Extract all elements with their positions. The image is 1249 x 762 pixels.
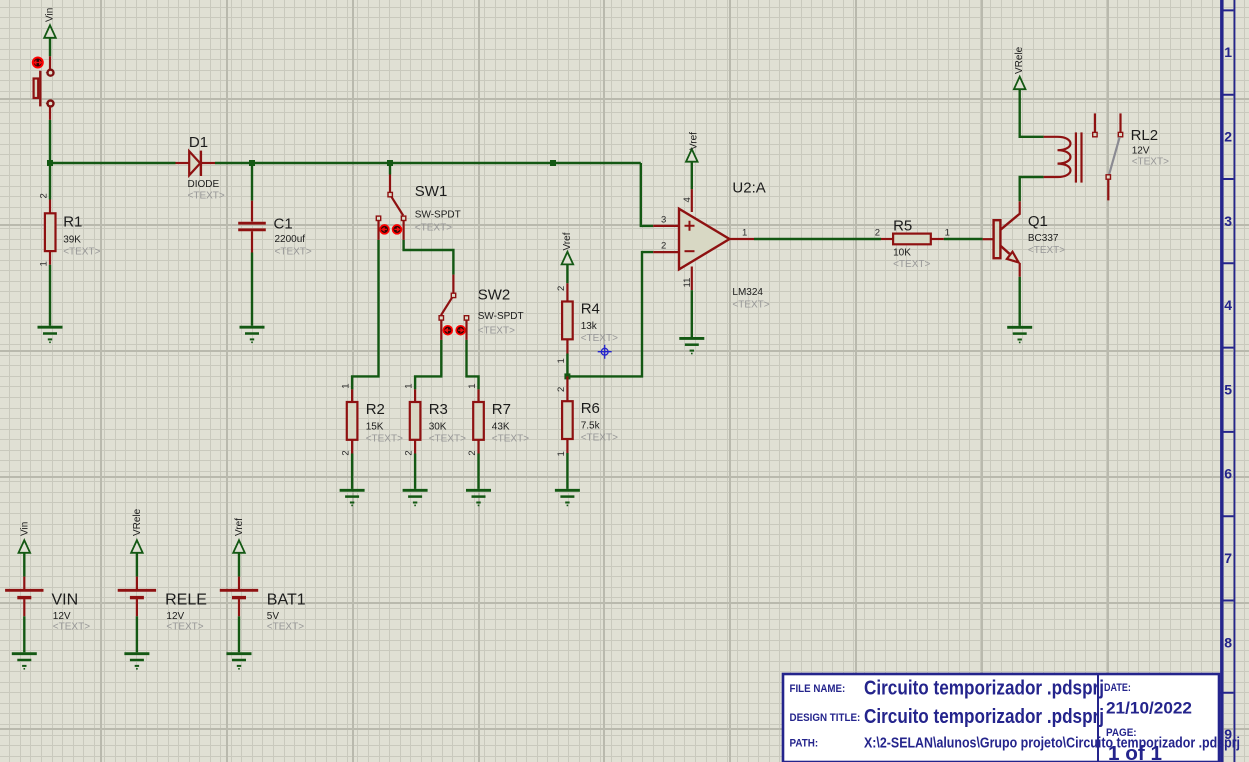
- svg-text:4: 4: [1224, 297, 1232, 313]
- svg-text:DESIGN TITLE:: DESIGN TITLE:: [790, 712, 861, 724]
- svg-text:R7: R7: [492, 401, 511, 418]
- svg-text:R1: R1: [63, 213, 82, 230]
- svg-text:5V: 5V: [267, 611, 280, 622]
- pin C1 top: [251, 201, 253, 222]
- wire R2 to ground: [351, 454, 353, 489]
- relay contact right stub: [1118, 113, 1122, 136]
- svg-text:D1: D1: [189, 134, 208, 151]
- pin 1 R6: [566, 439, 568, 453]
- svg-text:RL2: RL2: [1131, 127, 1159, 144]
- ground R2: [340, 490, 365, 505]
- svg-text:PATH:: PATH:: [790, 738, 819, 750]
- power terminal Vref above R4: [562, 232, 574, 264]
- svg-text:43K: 43K: [492, 422, 510, 433]
- svg-text:3: 3: [1224, 213, 1232, 229]
- svg-text:PAGE:: PAGE:: [1106, 727, 1137, 739]
- wire R1 top: [49, 163, 51, 200]
- svg-text:R6: R6: [581, 400, 600, 417]
- switch SW2: [439, 287, 524, 337]
- pin C1 bottom: [251, 231, 253, 252]
- svg-text:<TEXT>: <TEXT>: [732, 300, 769, 311]
- ground R3: [403, 490, 428, 505]
- svg-text:<TEXT>: <TEXT>: [267, 621, 304, 632]
- wire R1 to ground: [49, 265, 51, 326]
- svg-text:6: 6: [1224, 466, 1232, 482]
- svg-text:1 of 1: 1 of 1: [1108, 743, 1162, 762]
- svg-text:1: 1: [467, 384, 478, 389]
- ground R7: [466, 490, 491, 505]
- pin 3 op-amp: [653, 225, 679, 227]
- resistor R4: [562, 301, 618, 345]
- svg-text:2: 2: [661, 241, 666, 252]
- svg-text:VIN: VIN: [52, 591, 79, 608]
- SW1 toggle marker left: [380, 225, 389, 234]
- svg-text:R3: R3: [429, 401, 448, 418]
- svg-text:4: 4: [682, 197, 693, 202]
- wire R4 to junction: [566, 354, 568, 377]
- pin 4 op-amp: [691, 189, 693, 212]
- svg-text:2: 2: [556, 387, 567, 392]
- svg-text:1: 1: [556, 451, 567, 456]
- svg-text:1: 1: [945, 228, 950, 239]
- wire pin11 to ground: [691, 290, 693, 337]
- svg-text:1: 1: [742, 227, 747, 238]
- svg-text:<TEXT>: <TEXT>: [1028, 245, 1065, 256]
- battery RELE: [118, 508, 207, 652]
- svg-text:<TEXT>: <TEXT>: [429, 434, 466, 445]
- pin SW2 left throw: [440, 320, 442, 340]
- svg-text:VRele: VRele: [132, 508, 143, 536]
- svg-text:12V: 12V: [1132, 146, 1150, 157]
- battery BAT1: [220, 518, 306, 652]
- pin 2 R6: [566, 376, 568, 401]
- pin 1 R3: [414, 389, 416, 402]
- svg-text:<TEXT>: <TEXT>: [415, 223, 452, 234]
- node junction at R1 tap: [47, 160, 53, 166]
- transistor Q1: [994, 213, 1066, 262]
- wire C1 top: [251, 163, 253, 201]
- pin 2 R3: [414, 440, 416, 454]
- svg-text:11: 11: [682, 278, 693, 288]
- svg-text:DATE:: DATE:: [1104, 682, 1131, 694]
- ground R6: [555, 490, 580, 505]
- pin SW1 right throw: [403, 221, 405, 240]
- svg-text:2200uf: 2200uf: [275, 234, 306, 245]
- pin 2 R5: [881, 238, 893, 240]
- pin Q1 base: [983, 238, 994, 240]
- node junction at SW1 tap: [387, 160, 393, 166]
- pin 2 R1: [49, 200, 51, 214]
- pin SW1 left throw: [377, 221, 379, 240]
- battery VIN: [5, 522, 90, 653]
- wire VRele to relay coil: [1020, 89, 1044, 137]
- svg-text:R5: R5: [893, 217, 912, 234]
- resistor R6: [562, 400, 618, 444]
- svg-text:1: 1: [404, 384, 415, 389]
- svg-text:Circuito temporizador .pdsprj: Circuito temporizador .pdsprj: [864, 678, 1104, 700]
- svg-text:C1: C1: [274, 216, 293, 233]
- pin D1 cathode: [202, 162, 215, 164]
- SW1 toggle marker right: [393, 225, 402, 234]
- relay lever: [1109, 137, 1120, 175]
- svg-text:5: 5: [1224, 381, 1232, 397]
- pin 11 op-amp: [691, 267, 693, 291]
- svg-text:<TEXT>: <TEXT>: [275, 246, 312, 257]
- ground RELE: [124, 654, 149, 669]
- svg-text:2: 2: [341, 450, 352, 455]
- relay pole square: [1106, 175, 1110, 179]
- pin 1 R7: [477, 389, 479, 402]
- svg-text:21/10/2022: 21/10/2022: [1106, 699, 1192, 718]
- svg-text:Vin: Vin: [45, 8, 56, 22]
- power terminal Vin top-left: [44, 8, 56, 38]
- svg-text:1: 1: [39, 261, 50, 266]
- svg-text:Circuito temporizador .pdsprj: Circuito temporizador .pdsprj: [864, 706, 1104, 728]
- wire emitter to ground: [1019, 277, 1021, 326]
- svg-text:12V: 12V: [166, 611, 184, 622]
- SW2 toggle marker left: [443, 326, 452, 335]
- wire R3 to ground: [414, 454, 416, 489]
- wire SW2 right throw to R7: [467, 340, 479, 390]
- ground VIN: [12, 654, 37, 669]
- wire Vref to R4: [566, 264, 568, 283]
- svg-text:VRele: VRele: [1014, 46, 1025, 74]
- svg-text:2: 2: [404, 450, 415, 455]
- capacitor C1: [238, 216, 312, 258]
- wire SW2 left throw to R3: [415, 340, 441, 390]
- wire output to R5: [754, 238, 881, 240]
- ground C1: [240, 327, 265, 342]
- resistor R3: [410, 401, 466, 445]
- svg-text:7.5k: 7.5k: [581, 421, 601, 432]
- pin button bottom: [49, 106, 51, 120]
- pin Q1 collector: [1019, 201, 1021, 215]
- svg-text:Vref: Vref: [688, 132, 699, 150]
- pin Q1 emitter: [1019, 263, 1021, 277]
- resistor R2: [347, 401, 403, 445]
- wire Vin terminal to button: [49, 38, 51, 57]
- pin 1 R5: [931, 238, 944, 240]
- wire main to op-amp pin3: [641, 163, 653, 226]
- resistor R5: [893, 217, 931, 270]
- svg-text:Vin: Vin: [19, 522, 30, 536]
- svg-text:<TEXT>: <TEXT>: [53, 621, 90, 632]
- pin 2 R4: [566, 283, 568, 301]
- svg-text:DIODE: DIODE: [188, 179, 220, 190]
- svg-text:Vref: Vref: [562, 232, 573, 250]
- svg-text:1: 1: [341, 384, 352, 389]
- pin button top: [49, 56, 51, 69]
- SW2 toggle marker right: [456, 326, 465, 335]
- svg-text:<TEXT>: <TEXT>: [893, 259, 930, 270]
- svg-text:3: 3: [661, 214, 666, 225]
- svg-text:15K: 15K: [366, 422, 384, 433]
- wire SW1 left throw to R2: [352, 240, 378, 390]
- node junction at C1 tap: [249, 160, 255, 166]
- pushbutton SW top-left: [34, 70, 54, 107]
- title block: [783, 674, 1240, 762]
- svg-text:<TEXT>: <TEXT>: [166, 621, 203, 632]
- svg-text:LM324: LM324: [732, 287, 763, 298]
- resistor R1: [45, 213, 101, 257]
- ground BAT1: [227, 654, 252, 669]
- svg-text:<TEXT>: <TEXT>: [366, 434, 403, 445]
- op-amp U2:A: [679, 180, 770, 311]
- svg-text:2: 2: [556, 286, 567, 291]
- pin SW2 right throw: [465, 320, 467, 340]
- pin 2 R2: [351, 440, 353, 454]
- pin 1 R1: [49, 251, 51, 265]
- svg-text:Vref: Vref: [234, 518, 245, 536]
- svg-text:BC337: BC337: [1028, 233, 1059, 244]
- svg-text:39K: 39K: [63, 234, 81, 245]
- svg-text:SW2: SW2: [478, 287, 511, 304]
- svg-text:Q1: Q1: [1028, 213, 1048, 230]
- svg-text:10K: 10K: [893, 247, 911, 258]
- svg-text:RELE: RELE: [165, 591, 207, 608]
- pin 1 R4: [566, 339, 568, 353]
- svg-text:SW-SPDT: SW-SPDT: [478, 311, 524, 322]
- svg-text:R4: R4: [581, 301, 600, 318]
- svg-text:FILE NAME:: FILE NAME:: [790, 683, 846, 695]
- sheet border right: [1219, 0, 1235, 762]
- wire R7 to ground: [477, 454, 479, 489]
- ground R1: [38, 327, 63, 342]
- wire main horizontal to op-amp bend: [215, 162, 641, 164]
- origin marker: [598, 345, 612, 359]
- svg-text:SW-SPDT: SW-SPDT: [415, 210, 461, 221]
- svg-text:2: 2: [875, 228, 880, 239]
- node junction dangling: [550, 160, 556, 166]
- wire R6 to ground: [566, 453, 568, 489]
- svg-text:R2: R2: [366, 401, 385, 418]
- svg-text:8: 8: [1224, 634, 1232, 650]
- svg-text:12V: 12V: [53, 611, 71, 622]
- ground Q1: [1007, 327, 1032, 342]
- wire main horizontal left segment: [50, 162, 176, 164]
- wire C1 to ground: [251, 253, 253, 326]
- svg-text:7: 7: [1224, 550, 1232, 566]
- ground op-amp: [679, 338, 704, 353]
- power terminal VRele: [1014, 46, 1026, 89]
- svg-text:1: 1: [1224, 44, 1232, 60]
- pin D1 anode: [176, 162, 190, 164]
- svg-text:1: 1: [556, 358, 567, 363]
- wire R5 to Q1 base: [944, 238, 983, 240]
- relay RL2 coil: [1044, 127, 1169, 183]
- pin SW2 common: [452, 275, 454, 293]
- wire junction to op-amp pin2: [567, 252, 653, 376]
- svg-text:2: 2: [39, 193, 50, 198]
- svg-text:13k: 13k: [581, 321, 598, 332]
- wire Vref terminal to pin4: [691, 162, 693, 189]
- svg-text:2: 2: [1224, 129, 1232, 145]
- wire button to main node: [49, 120, 51, 163]
- svg-text:2: 2: [467, 450, 478, 455]
- pin 2 R7: [477, 440, 479, 454]
- svg-text:<TEXT>: <TEXT>: [492, 434, 529, 445]
- pin 2 op-amp: [653, 251, 679, 253]
- svg-text:<TEXT>: <TEXT>: [478, 326, 515, 337]
- wire SW1 right throw to SW2 common: [404, 240, 454, 275]
- svg-text:30K: 30K: [429, 422, 447, 433]
- relay contact left stub: [1093, 113, 1097, 136]
- pin SW1 common: [389, 175, 391, 193]
- svg-text:<TEXT>: <TEXT>: [581, 433, 618, 444]
- resistor R7: [473, 401, 529, 445]
- svg-text:U2:A: U2:A: [732, 180, 765, 197]
- switch SW1: [376, 183, 460, 234]
- red actuator marker: [33, 58, 43, 68]
- diode D1: [188, 134, 225, 202]
- wire relay coil bottom to collector: [1020, 177, 1044, 201]
- pin 1 op-amp output: [730, 238, 755, 240]
- svg-text:<TEXT>: <TEXT>: [63, 246, 100, 257]
- svg-text:<TEXT>: <TEXT>: [581, 333, 618, 344]
- svg-text:X:\2-SELAN\alunos\Grupo projet: X:\2-SELAN\alunos\Grupo projeto\Circuito…: [864, 735, 1240, 751]
- relay pole stub: [1107, 179, 1109, 200]
- wire SW1 common: [389, 163, 391, 175]
- node junction R4/R6: [564, 373, 570, 379]
- svg-text:9: 9: [1224, 726, 1232, 742]
- svg-text:BAT1: BAT1: [267, 591, 306, 608]
- power terminal Vref above op-amp: [686, 132, 699, 162]
- svg-text:<TEXT>: <TEXT>: [188, 191, 225, 202]
- pin 1 R2: [351, 389, 353, 402]
- svg-text:<TEXT>: <TEXT>: [1132, 157, 1169, 168]
- svg-text:SW1: SW1: [415, 183, 448, 200]
